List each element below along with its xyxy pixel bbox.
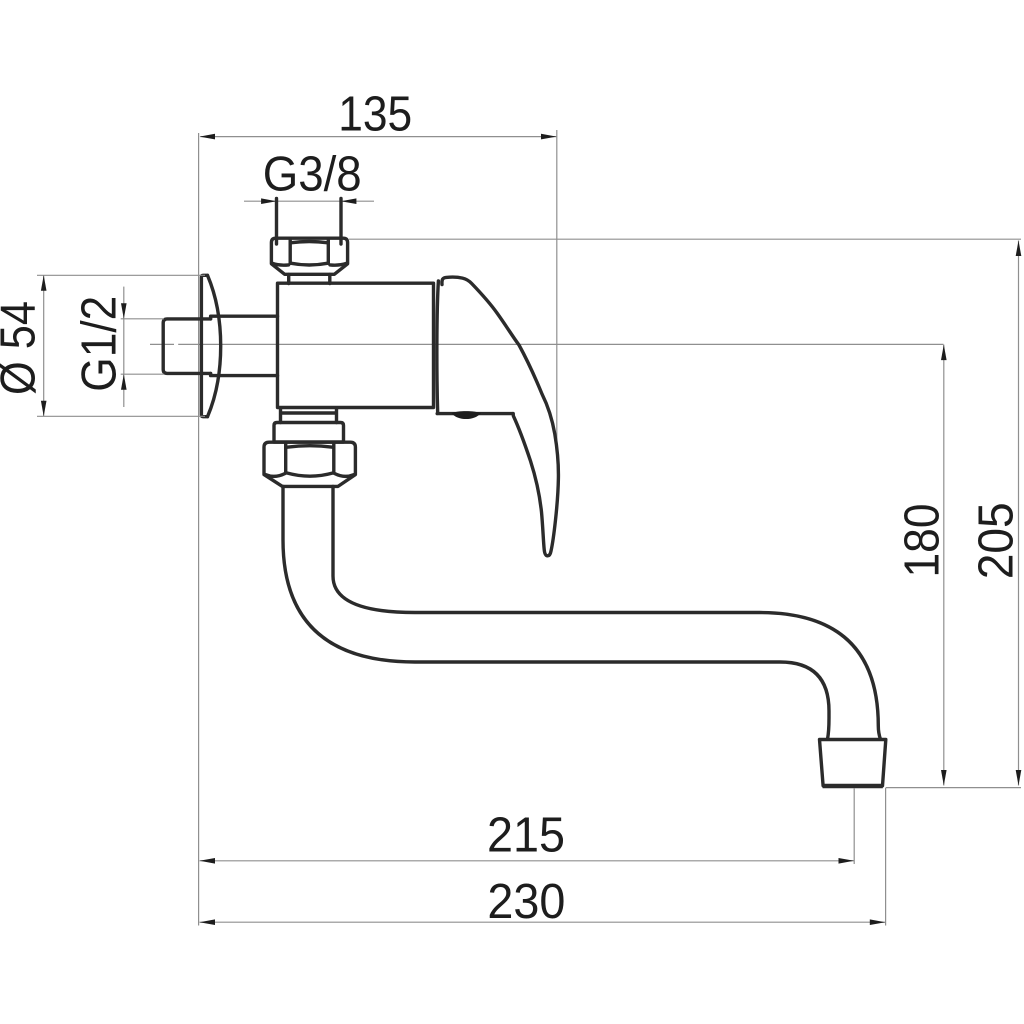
205 top arrow [1016, 241, 1022, 257]
tailpiece thread G3/8 [277, 199, 342, 245]
lower nut facet arcs [266, 446, 354, 477]
215 right arrow [839, 858, 855, 864]
G1/2 top arrow [121, 303, 127, 319]
svg-text:135: 135 [338, 88, 412, 142]
230 left arrow [200, 919, 216, 925]
lower nut facet lines [286, 444, 334, 473]
230 right arrow [870, 919, 886, 925]
extension line for 205 from nut top [349, 238, 1021, 240]
G3/8 left arrow [261, 198, 277, 204]
dimension Ø54 line [43, 275, 45, 416]
dimension G3/8 line [244, 200, 374, 202]
outlet bottom extension line [886, 787, 1021, 789]
svg-text:205: 205 [969, 502, 1023, 579]
215 left arrow [200, 858, 216, 864]
centerline [150, 343, 944, 345]
neck below top nut [289, 275, 330, 284]
handle [442, 277, 558, 556]
top nut facet arcs [273, 242, 347, 266]
G3/8 right arrow [341, 198, 357, 204]
lower collar [274, 423, 344, 443]
dimension 135 line [200, 136, 556, 138]
G1/2 thread block [163, 319, 210, 374]
215 extension line [853, 788, 855, 864]
230 extension line [885, 788, 887, 926]
Ø54 bottom arrow [41, 401, 47, 417]
svg-text:G1/2: G1/2 [72, 296, 126, 392]
inlet pipe [211, 316, 278, 375]
spout [283, 487, 881, 740]
180 bottom arrow [941, 770, 947, 786]
dimension 135 right arrow [541, 134, 557, 140]
G1/2 bottom arrow [121, 374, 127, 390]
dimension 205 line [1018, 241, 1020, 786]
dimension 135 left arrow [200, 134, 216, 140]
wall flange [201, 275, 220, 416]
Ø54 top arrow [41, 275, 47, 291]
205 bottom arrow [1016, 770, 1022, 786]
cartridge cover [437, 281, 439, 413]
body [278, 283, 434, 407]
top nut facet lines [290, 240, 328, 263]
dimension 230 line [200, 921, 886, 923]
top nut G3/8 [271, 238, 347, 274]
lower connection stub [281, 409, 337, 423]
dimension G1/2 line [123, 287, 125, 407]
lower nut G1/2 [264, 442, 355, 486]
180 top arrow [941, 345, 947, 361]
outlet [820, 740, 886, 786]
G1/2 extension lines [121, 319, 164, 374]
handle underside lens [452, 411, 481, 419]
handle bottom line [437, 412, 513, 415]
wall extension line [198, 133, 200, 926]
svg-text:G3/8: G3/8 [263, 147, 362, 201]
svg-text:Ø 54: Ø 54 [0, 301, 46, 395]
svg-text:230: 230 [487, 875, 565, 929]
svg-text:215: 215 [487, 809, 565, 863]
svg-text:180: 180 [896, 504, 950, 578]
extension line right of 135 at handle tip [556, 130, 558, 445]
dimension 215 line [200, 860, 855, 862]
dimension Ø54 extension lines [37, 275, 205, 416]
dimension 180 line [943, 345, 945, 786]
